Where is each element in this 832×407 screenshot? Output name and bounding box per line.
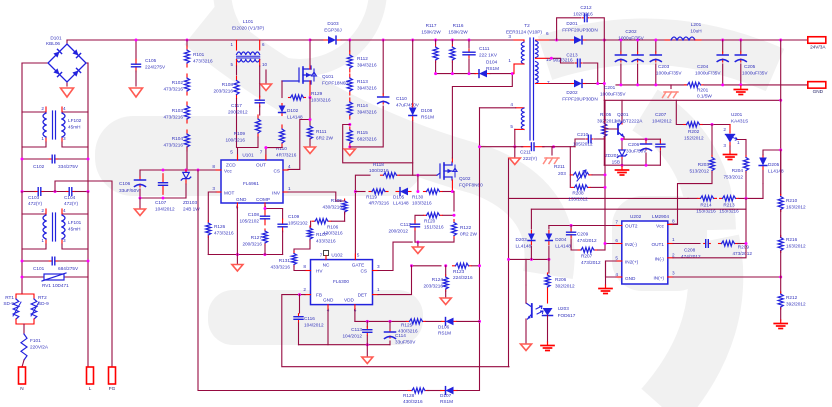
svg-text:R127: R127 (251, 235, 263, 240)
wire IN2- row (605, 243, 622, 245)
diode D107 (427, 390, 441, 392)
svg-text:FCPF18N60: FCPF18N60 (322, 81, 348, 86)
svg-text:163/2012: 163/2012 (786, 205, 806, 210)
resistor R212 (780, 277, 782, 293)
svg-text:394/3216: 394/3216 (357, 86, 377, 91)
svg-text:CS: CS (360, 269, 367, 274)
svg-text:U102: U102 (331, 253, 343, 258)
wire D108 to gate line (412, 121, 414, 163)
svg-text:IN2(-): IN2(-) (625, 242, 637, 247)
svg-text:U201: U201 (731, 112, 743, 117)
wire LF102 bottom to rails (22, 112, 46, 147)
svg-text:U203: U203 (558, 306, 570, 311)
svg-text:R207: R207 (581, 254, 593, 259)
wire IN+ row (673, 276, 781, 278)
wire OUT1 to C208 (673, 243, 700, 245)
svg-text:R211: R211 (554, 164, 565, 169)
svg-text:3: 3 (508, 34, 511, 39)
svg-text:RS1M: RS1M (486, 66, 499, 71)
output ground bus (616, 84, 687, 86)
bridge rectifier D101 (66, 40, 68, 44)
capacitor C114 electrolytic (389, 320, 392, 323)
capacitor C105 (135, 40, 137, 60)
svg-text:C110: C110 (396, 96, 407, 101)
wire HV sense down to bottom bus (198, 170, 410, 391)
svg-text:R101: R101 (193, 52, 205, 57)
svg-text:Q102: Q102 (459, 176, 471, 181)
ground under opto transistor (521, 344, 532, 351)
wire C211 left to aux rail (515, 146, 523, 148)
svg-text:104/2012: 104/2012 (155, 207, 175, 212)
svg-text:5: 5 (510, 124, 513, 129)
svg-text:C103: C103 (28, 195, 40, 200)
svg-text:1000uF/35V: 1000uF/35V (695, 71, 721, 76)
svg-text:R209: R209 (738, 245, 750, 250)
svg-text:1: 1 (377, 287, 380, 292)
optocoupler U203 FOD617 (547, 289, 549, 303)
capacitor C209 (570, 226, 572, 230)
capacitor C204 electrolytic (721, 39, 724, 42)
diode D103 (310, 39, 323, 41)
svg-text:4: 4 (63, 208, 66, 213)
svg-text:OUT: OUT (256, 163, 266, 168)
wire COMP node (265, 208, 283, 219)
ground under C113 (366, 345, 368, 356)
svg-text:4: 4 (288, 164, 291, 169)
svg-text:ZCD: ZCD (226, 163, 236, 168)
svg-text:RT1: RT1 (5, 295, 14, 300)
ground under R115 (348, 145, 351, 148)
resistor R216 (780, 236, 782, 238)
svg-text:104/2012: 104/2012 (342, 334, 362, 339)
svg-text:3: 3 (63, 136, 66, 141)
svg-text:684/275V: 684/275V (58, 266, 79, 271)
svg-text:Q201: Q201 (617, 112, 629, 117)
wire Q102 source to sense (451, 190, 454, 193)
T2 secondary winding (536, 39, 551, 41)
wire FB net (282, 295, 509, 367)
wire MOT to R126 (208, 192, 216, 221)
power ground (417, 242, 419, 246)
svg-text:D102: D102 (287, 108, 299, 113)
resistor R119 (369, 191, 372, 193)
ground stub mid (265, 70, 267, 84)
svg-text:L: L (89, 386, 92, 391)
resistor R131 (293, 252, 295, 254)
svg-text:4R7/3216: 4R7/3216 (369, 201, 390, 206)
svg-text:SD-9: SD-9 (3, 301, 14, 306)
svg-text:D106: D106 (438, 325, 450, 330)
svg-text:R204: R204 (732, 168, 744, 173)
signal ground on bus (740, 86, 742, 90)
svg-text:513/2012: 513/2012 (689, 169, 709, 174)
svg-text:430/3216: 430/3216 (322, 205, 342, 210)
svg-text:R205: R205 (600, 112, 612, 117)
wire Q201 emitter row (624, 137, 660, 139)
wire right rail lower (87, 249, 89, 367)
capacitor C201 electrolytic (620, 40, 622, 52)
wire GND pin down (236, 208, 238, 255)
svg-text:D108: D108 (421, 108, 433, 113)
sense line (604, 99, 780, 101)
svg-text:LM2904: LM2904 (652, 214, 669, 219)
trimmer R211 (570, 174, 573, 176)
resistor R111 (309, 125, 311, 127)
svg-text:INV: INV (272, 191, 281, 196)
svg-text:C116: C116 (304, 316, 315, 321)
svg-text:0.1/5W: 0.1/5W (697, 94, 712, 99)
wire Vcc from R203 (673, 223, 678, 226)
svg-text:8: 8 (303, 264, 306, 269)
svg-text:C209: C209 (577, 232, 589, 237)
local ground bus Q201 (604, 164, 660, 166)
wire top HV rail (67, 39, 515, 41)
svg-text:RT2: RT2 (38, 295, 47, 300)
svg-text:7: 7 (615, 220, 618, 225)
resistor R124 (445, 266, 447, 275)
svg-text:222 1KV: 222 1KV (479, 53, 498, 58)
resistor R117 (434, 39, 437, 42)
svg-text:C105: C105 (145, 58, 157, 63)
svg-text:6: 6 (546, 31, 549, 36)
svg-text:R214: R214 (700, 203, 712, 208)
svg-text:433/3216: 433/3216 (316, 239, 336, 244)
svg-text:F101: F101 (30, 338, 41, 343)
resistor R202 (684, 124, 687, 126)
svg-text:473/3216: 473/3216 (193, 59, 213, 64)
svg-text:2: 2 (723, 127, 726, 132)
svg-text:224/3216: 224/3216 (453, 275, 473, 280)
capacitor C116 (299, 295, 301, 313)
svg-text:D104: D104 (486, 60, 498, 65)
svg-text:1: 1 (672, 237, 675, 242)
svg-text:45mH: 45mH (68, 227, 81, 232)
svg-text:1: 1 (288, 186, 291, 191)
op-amp U101 FL6961 PFC controller (221, 160, 283, 203)
svg-text:FL6300: FL6300 (333, 279, 349, 284)
svg-text:D107: D107 (440, 393, 452, 398)
capacitor C101 (22, 260, 49, 262)
aux supply vertical (479, 108, 481, 322)
wire left rail upper (22, 63, 46, 112)
wire L101 pin10 to C117 (259, 66, 261, 97)
wire INV to R105 (288, 192, 345, 201)
svg-text:163/2012: 163/2012 (786, 244, 806, 249)
svg-text:103/3216: 103/3216 (412, 201, 432, 206)
svg-text:R130: R130 (412, 195, 424, 200)
svg-text:RS1M: RS1M (438, 331, 451, 336)
svg-text:R105: R105 (331, 198, 343, 203)
terminal 24V output (779, 39, 782, 42)
svg-text:FL6961: FL6961 (243, 181, 259, 186)
svg-text:R109: R109 (234, 131, 246, 136)
wire VDD node (354, 310, 356, 321)
svg-text:R131: R131 (279, 258, 291, 263)
zener ZD201 (621, 148, 623, 150)
svg-text:IN(+): IN(+) (653, 276, 664, 281)
wire CS to sense row (378, 242, 412, 270)
wire Q201 base (604, 128, 618, 130)
op-amp U102 FL6300 PWM controller (311, 260, 373, 305)
resistor R118 (381, 174, 384, 176)
svg-text:7: 7 (320, 253, 323, 258)
svg-text:FFPF20UP30DN: FFPF20UP30DN (562, 28, 597, 33)
capacitor C110 electrolytic (382, 40, 384, 94)
resistor R110 (281, 125, 283, 129)
ground under R124 (445, 291, 447, 297)
svg-text:3: 3 (377, 264, 380, 269)
diode D106 (426, 320, 441, 322)
wire left rail mid (21, 147, 23, 192)
svg-text:433/3216: 433/3216 (270, 265, 290, 270)
svg-text:FB: FB (316, 293, 322, 298)
svg-text:COMP: COMP (256, 197, 270, 202)
svg-text:473/2012: 473/2012 (732, 251, 752, 256)
wire gate chain (281, 81, 283, 98)
svg-text:FG: FG (109, 386, 116, 391)
svg-text:D103: D103 (327, 21, 339, 26)
wire U201 ref to R204 (738, 139, 747, 141)
svg-text:C101: C101 (33, 266, 45, 271)
svg-text:GND: GND (323, 298, 334, 303)
capacitor C212 snubber (557, 18, 581, 40)
capacitor C109 (282, 219, 284, 224)
svg-text:KBL06: KBL06 (46, 41, 60, 46)
svg-text:392/2012: 392/2012 (597, 118, 617, 123)
svg-text:FOD617: FOD617 (558, 313, 576, 318)
svg-text:D201: D201 (566, 21, 578, 26)
svg-text:C111: C111 (479, 46, 490, 51)
output rail (604, 39, 808, 41)
svg-text:200/2012: 200/2012 (228, 110, 248, 115)
svg-text:394/3216: 394/3216 (357, 110, 377, 115)
capacitor C108 (264, 210, 266, 216)
wire D107 to aux rail (457, 321, 480, 390)
resistor R122 (453, 220, 455, 223)
svg-text:1: 1 (508, 58, 511, 63)
svg-text:10uH: 10uH (690, 29, 701, 34)
diode D104 (475, 73, 478, 75)
thermistor RT1 (16, 294, 22, 299)
svg-text:MMBT2222A: MMBT2222A (615, 118, 643, 123)
svg-text:R115: R115 (357, 130, 368, 135)
svg-text:2: 2 (303, 287, 306, 292)
svg-text:203: 203 (558, 171, 566, 176)
resistor R102 (186, 74, 188, 78)
terminal L (87, 367, 94, 384)
svg-text:392/2012: 392/2012 (786, 302, 806, 307)
svg-text:33uF/50V: 33uF/50V (395, 340, 416, 345)
diode D108 (412, 40, 414, 103)
resistor R209 (719, 243, 722, 245)
PFC inductor L101 (236, 40, 238, 50)
capacitor C211 (521, 146, 531, 148)
svg-text:R203: R203 (698, 162, 710, 167)
svg-text:3: 3 (723, 143, 726, 148)
zener ZD103 (185, 170, 187, 171)
svg-text:R216: R216 (786, 237, 798, 242)
svg-text:105/2102: 105/2102 (239, 219, 259, 224)
resistor R108 aux (236, 66, 238, 75)
svg-text:EI2020 (V1/3P): EI2020 (V1/3P) (232, 26, 264, 31)
VDD supply row (355, 320, 406, 322)
svg-text:C112: C112 (400, 222, 411, 227)
svg-text:VDD: VDD (344, 298, 355, 303)
svg-text:150K/2W: 150K/2W (448, 30, 468, 35)
svg-text:200/3216: 200/3216 (242, 242, 262, 247)
svg-text:4: 4 (63, 106, 66, 111)
svg-text:LL4148: LL4148 (516, 244, 532, 249)
svg-text:150K/2W: 150K/2W (421, 30, 441, 35)
capacitor C206 electrolytic (645, 139, 647, 141)
svg-text:472(Y): 472(Y) (64, 201, 79, 206)
wire R203 to op-amp Vcc (622, 172, 712, 224)
svg-text:0R2 2W: 0R2 2W (460, 232, 478, 237)
svg-text:7: 7 (547, 80, 550, 85)
resistor R204 (745, 140, 747, 157)
wire right rail upper (62, 63, 88, 112)
svg-text:R107: R107 (316, 232, 328, 237)
chassis ground stub (551, 147, 553, 155)
svg-text:T2: T2 (524, 23, 530, 28)
svg-text:N: N (20, 386, 23, 391)
svg-text:C107: C107 (155, 200, 167, 205)
diode D105 (396, 191, 399, 193)
resistor R101 (186, 39, 189, 42)
svg-text:NC: NC (323, 263, 330, 268)
svg-text:GATE: GATE (352, 263, 364, 268)
svg-text:15B: 15B (612, 160, 620, 165)
resistor R129 (289, 97, 291, 99)
wire IN- net vertical (673, 198, 746, 257)
wire R131 to HV (294, 266, 305, 271)
resistor R125 (407, 320, 410, 322)
svg-text:200/2012: 200/2012 (388, 229, 408, 234)
wire D203 top to IN- net (531, 208, 746, 210)
svg-text:1: 1 (737, 140, 740, 145)
svg-text:C109: C109 (288, 214, 300, 219)
svg-text:8: 8 (672, 219, 675, 224)
svg-text:R114: R114 (357, 103, 368, 108)
resistor R214 (698, 197, 701, 199)
wire R123 row (412, 265, 442, 267)
svg-text:Q101: Q101 (322, 74, 334, 79)
wire Y-cap midpoint to FG (55, 181, 112, 367)
svg-text:473/3216: 473/3216 (163, 115, 183, 120)
resistor R107 (310, 221, 312, 227)
wire thermistor bottoms (16, 319, 34, 324)
svg-text:OUT2: OUT2 (625, 224, 638, 229)
resistor R104 (186, 130, 188, 134)
svg-text:C108: C108 (248, 212, 260, 217)
svg-text:302/2012: 302/2012 (555, 284, 575, 289)
capacitor C107 (162, 174, 164, 183)
wire CS sense tap (288, 120, 310, 170)
svg-text:GND: GND (236, 197, 247, 202)
wire rectifier node down (603, 40, 605, 100)
wire return to R214 row (509, 197, 689, 199)
svg-text:SD-9: SD-9 (38, 301, 49, 306)
svg-text:C104: C104 (64, 195, 76, 200)
svg-text:R129: R129 (311, 91, 323, 96)
svg-text:R213: R213 (723, 203, 735, 208)
svg-text:C205: C205 (744, 64, 756, 69)
local gnd bus under U102 (299, 344, 391, 346)
svg-text:U202: U202 (630, 214, 642, 219)
svg-text:R118: R118 (373, 162, 384, 167)
svg-text:EER3124 (V10P): EER3124 (V10P) (506, 30, 542, 35)
svg-text:R125: R125 (401, 323, 413, 328)
svg-text:RS1M: RS1M (440, 399, 453, 404)
svg-text:224/275V: 224/275V (145, 65, 166, 70)
svg-text:L101: L101 (243, 19, 254, 24)
svg-text:R102: R102 (172, 80, 184, 85)
svg-text:473/3216: 473/3216 (163, 143, 183, 148)
svg-text:KA431S: KA431S (731, 119, 748, 124)
svg-text:MOT: MOT (224, 191, 235, 196)
svg-text:1000uF/35V: 1000uF/35V (742, 71, 768, 76)
MOSFET Q101 (309, 40, 311, 66)
svg-text:33uF/50V: 33uF/50V (626, 149, 647, 154)
wire DET to R123 row (378, 266, 412, 295)
svg-text:105/2102: 105/2102 (288, 221, 308, 226)
svg-text:C202: C202 (625, 29, 637, 34)
ground under C105 (130, 88, 143, 97)
thermistor RT2 (22, 294, 34, 299)
wire secondary return net (508, 159, 510, 367)
svg-text:LL4148: LL4148 (287, 115, 303, 120)
secondary diode D202 (550, 83, 572, 85)
transistor Q201 (621, 100, 623, 120)
svg-text:C211: C211 (520, 150, 531, 155)
svg-text:C203: C203 (658, 64, 670, 69)
svg-text:151/3216: 151/3216 (424, 224, 444, 229)
svg-text:24V/3A: 24V/3A (810, 44, 826, 49)
capacitor C111 (468, 39, 471, 42)
svg-text:C206: C206 (628, 142, 640, 147)
wire R202 row (676, 100, 683, 124)
svg-text:2: 2 (672, 252, 675, 257)
svg-text:D105: D105 (393, 195, 405, 200)
resistor R127 (264, 229, 266, 231)
svg-text:LF102: LF102 (68, 118, 82, 123)
svg-text:473/3216: 473/3216 (214, 231, 234, 236)
capacitor C106 electrolytic (139, 170, 141, 177)
secondary diode D201 (550, 39, 572, 41)
svg-text:C210: C210 (577, 132, 589, 137)
wire left rail lower (21, 249, 23, 294)
svg-text:104/2012: 104/2012 (652, 119, 672, 124)
wire Vcc bottom row (140, 197, 186, 199)
capacitor C102 (22, 158, 49, 160)
capacitor C203 electrolytic (655, 40, 657, 52)
wire OUT node (266, 147, 282, 160)
ground under U201 (729, 146, 731, 151)
svg-text:473/3216: 473/3216 (163, 87, 183, 92)
svg-text:1: 1 (41, 136, 44, 141)
wire IN2+ and GND to ground (606, 261, 617, 277)
ground under C106 row (139, 198, 141, 208)
capacitor C103 (22, 191, 35, 193)
signal ground under U202 (605, 285, 607, 289)
svg-text:R106: R106 (327, 225, 339, 230)
svg-text:682/3216: 682/3216 (357, 137, 377, 142)
wire divider tap to gate node (343, 125, 413, 176)
svg-text:OUT1: OUT1 (651, 242, 664, 247)
svg-text:R119: R119 (366, 195, 377, 200)
signal ground under R212 (780, 308, 782, 320)
capacitor C117 (259, 96, 261, 100)
